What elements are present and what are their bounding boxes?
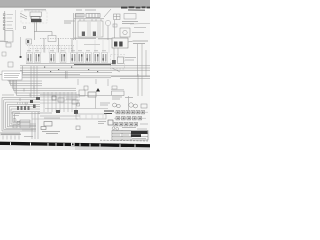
head connector dark blob xyxy=(31,19,42,22)
label text xyxy=(133,41,148,44)
input block xyxy=(26,39,32,44)
motor M1 box xyxy=(30,12,42,17)
IC row 1 pin marks xyxy=(115,112,143,126)
connector pin list text xyxy=(7,15,14,29)
fuse F1 box xyxy=(44,122,52,127)
label text xyxy=(2,94,14,96)
label text xyxy=(112,97,133,99)
long terminal board box xyxy=(76,114,106,119)
wire faint xyxy=(15,10,17,30)
label text xyxy=(22,130,33,137)
indicator triangle xyxy=(96,88,100,92)
node dot xyxy=(30,100,33,103)
wire xyxy=(114,44,146,96)
electrolytic C12 xyxy=(129,103,133,107)
resistor R5 xyxy=(52,96,56,100)
bottom edge caption text xyxy=(100,139,148,142)
IC row 2 xyxy=(116,117,142,120)
wire xyxy=(114,20,116,38)
wire xyxy=(111,74,150,110)
mechanism outline xyxy=(21,11,47,23)
faint caption xyxy=(86,136,100,138)
relay box K1 xyxy=(88,92,96,97)
switch S1 box xyxy=(114,14,121,20)
label text xyxy=(125,58,136,61)
transistor Q8 stage xyxy=(94,51,100,63)
wire xyxy=(32,118,78,120)
transistor Q5 stage xyxy=(71,51,77,63)
caption text tape deck xyxy=(24,9,46,11)
electrolytic C11 xyxy=(117,104,121,108)
label text xyxy=(64,21,72,23)
electrolytic C13 xyxy=(134,104,138,108)
wire diagonal xyxy=(20,16,27,19)
dense caption row right xyxy=(74,37,112,40)
plug P1 box xyxy=(41,127,46,130)
notes box xyxy=(2,71,22,80)
label text xyxy=(100,103,110,105)
diode D1 xyxy=(17,106,19,110)
top scanner band xyxy=(0,0,150,7)
small part xyxy=(113,24,117,27)
hatch ticks row xyxy=(18,102,28,105)
power rectifier block xyxy=(112,60,116,64)
connector marks xyxy=(108,120,113,125)
power unit dashed outline xyxy=(111,55,125,70)
diode D2 xyxy=(21,106,23,110)
wire xyxy=(51,32,53,36)
node dot xyxy=(20,56,22,58)
feed pair darker xyxy=(44,38,72,53)
diagonal wire xyxy=(112,68,120,72)
connector ladder J1 xyxy=(3,11,5,40)
row3 side text xyxy=(137,124,148,129)
wire xyxy=(34,22,36,40)
label text xyxy=(66,97,78,99)
wire partial xyxy=(84,44,100,46)
bus drop ticks xyxy=(78,79,108,109)
resistor R7 box xyxy=(72,100,78,104)
transformer T3 box xyxy=(20,120,30,128)
film sprocket ticks xyxy=(10,142,136,147)
IC row 3 xyxy=(114,123,138,126)
antenna wire xyxy=(104,9,111,17)
capacitor C6 dark xyxy=(74,110,78,114)
wire xyxy=(74,18,104,20)
capacitor C5 dark xyxy=(56,110,60,113)
IC1 dark cell A xyxy=(82,32,85,37)
table text dots xyxy=(113,132,146,138)
transistor Q7 stage xyxy=(86,51,92,63)
relay dark cell B xyxy=(119,42,122,47)
box B2 xyxy=(124,14,136,20)
page top edge line xyxy=(0,6,150,9)
inductor L1 xyxy=(84,86,88,90)
diode D3 xyxy=(24,106,26,110)
relay RL1 box xyxy=(48,36,56,42)
wire xyxy=(45,108,108,110)
bus wire vertical pair xyxy=(72,13,75,40)
transistor Q3 stage xyxy=(50,51,56,63)
note text row xyxy=(42,132,60,134)
feed wires xyxy=(29,40,109,53)
title handwriting row 2 xyxy=(128,9,145,11)
resistor R6 box xyxy=(58,98,64,102)
label text xyxy=(38,113,60,118)
wire xyxy=(32,112,38,139)
capacitor C1 xyxy=(24,27,26,29)
transistor Q6 stage xyxy=(78,51,84,63)
wire xyxy=(20,37,22,57)
node blob xyxy=(36,97,40,100)
bottom film band xyxy=(0,142,150,148)
small part xyxy=(76,126,80,130)
lamp box xyxy=(112,86,117,89)
junction box xyxy=(5,31,13,43)
title dark cell row2 xyxy=(131,134,141,137)
below-band margin xyxy=(0,145,75,150)
wiring fan B xyxy=(2,98,40,132)
title dark cell row1 xyxy=(131,131,148,134)
wire mesh horizontals xyxy=(40,95,80,104)
wire xyxy=(40,115,80,117)
leader wire xyxy=(128,41,133,42)
wire xyxy=(0,40,5,42)
wire bundle vertical xyxy=(31,66,37,98)
row caption text xyxy=(122,127,136,129)
ground bus text xyxy=(1,132,21,140)
transistor Q4 stage xyxy=(60,51,66,63)
caption text xyxy=(76,9,96,11)
fan line component ticks xyxy=(20,86,34,110)
relay block box xyxy=(112,38,128,48)
small circle 2 xyxy=(116,127,119,130)
wire xyxy=(0,41,8,43)
wire xyxy=(34,31,52,33)
heavy bus wire xyxy=(74,64,111,66)
wire mesh verticals xyxy=(44,92,76,112)
label text xyxy=(122,22,138,24)
page background xyxy=(0,0,150,150)
wire diagonal xyxy=(20,13,27,17)
IC1 dark cell B xyxy=(93,32,96,37)
speaker SP1 xyxy=(105,20,110,25)
relay dark cell A xyxy=(114,42,117,47)
connector line row2 xyxy=(114,117,146,119)
transistor Q2 stage xyxy=(35,51,41,63)
resistor R1 box xyxy=(8,62,13,67)
IC1 block xyxy=(78,19,103,37)
small circles xyxy=(112,127,115,130)
capacitor block xyxy=(33,105,36,109)
dark label SW xyxy=(104,111,114,114)
wiring fan A xyxy=(8,80,111,95)
transistor Q9 stage xyxy=(102,51,108,63)
output transformer box xyxy=(112,91,125,96)
resistor cluster xyxy=(141,104,147,108)
diode D4 xyxy=(28,106,30,110)
wire xyxy=(111,89,124,91)
connector line row1 xyxy=(114,111,148,113)
below-band margin right xyxy=(75,146,150,150)
small parts xyxy=(77,103,80,106)
electrolytic C10 xyxy=(113,103,117,107)
bus wires xyxy=(0,64,150,78)
IC row 1 xyxy=(116,111,145,114)
terminal strip xyxy=(11,113,20,128)
wire xyxy=(36,22,38,32)
label text xyxy=(98,122,106,124)
title handwriting row 1 xyxy=(121,6,150,8)
capacitor C2 xyxy=(2,52,6,56)
bus stub wires xyxy=(23,66,68,79)
film notch dot xyxy=(72,143,74,145)
coil T1 xyxy=(76,14,84,18)
motor M1 inner xyxy=(31,17,40,20)
regulator box xyxy=(118,57,124,64)
caption text row xyxy=(27,39,74,49)
bus speck ticks xyxy=(44,67,98,73)
transistor Q1 stage xyxy=(27,51,33,63)
wire xyxy=(107,26,109,40)
title block table xyxy=(112,131,148,141)
leader wires and labels xyxy=(130,24,150,33)
coil T2 xyxy=(86,14,100,18)
terminal box xyxy=(6,43,11,47)
jack box xyxy=(79,90,85,96)
meter M2 box xyxy=(120,28,130,37)
